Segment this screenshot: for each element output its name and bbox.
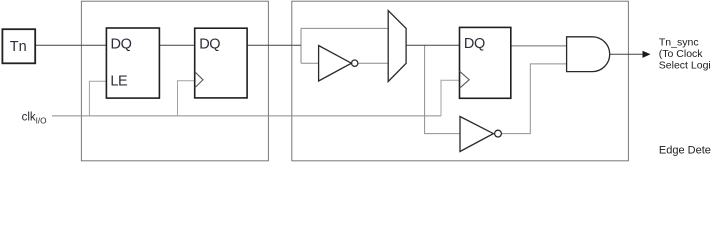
svg-text:Select Logic): Select Logic) xyxy=(659,60,711,72)
svg-text:Tn: Tn xyxy=(10,39,27,55)
svg-text:Edge Detect: Edge Detect xyxy=(659,145,711,157)
svg-text:clk: clk xyxy=(22,111,36,123)
svg-text:(To Clock: (To Clock xyxy=(659,48,704,60)
svg-text:DQ: DQ xyxy=(199,36,220,52)
svg-text:DQ: DQ xyxy=(464,36,485,52)
svg-text:LE: LE xyxy=(110,74,128,90)
svg-text:DQ: DQ xyxy=(111,36,132,52)
svg-text:Tn_sync: Tn_sync xyxy=(659,36,699,48)
svg-text:I/O: I/O xyxy=(36,116,47,125)
